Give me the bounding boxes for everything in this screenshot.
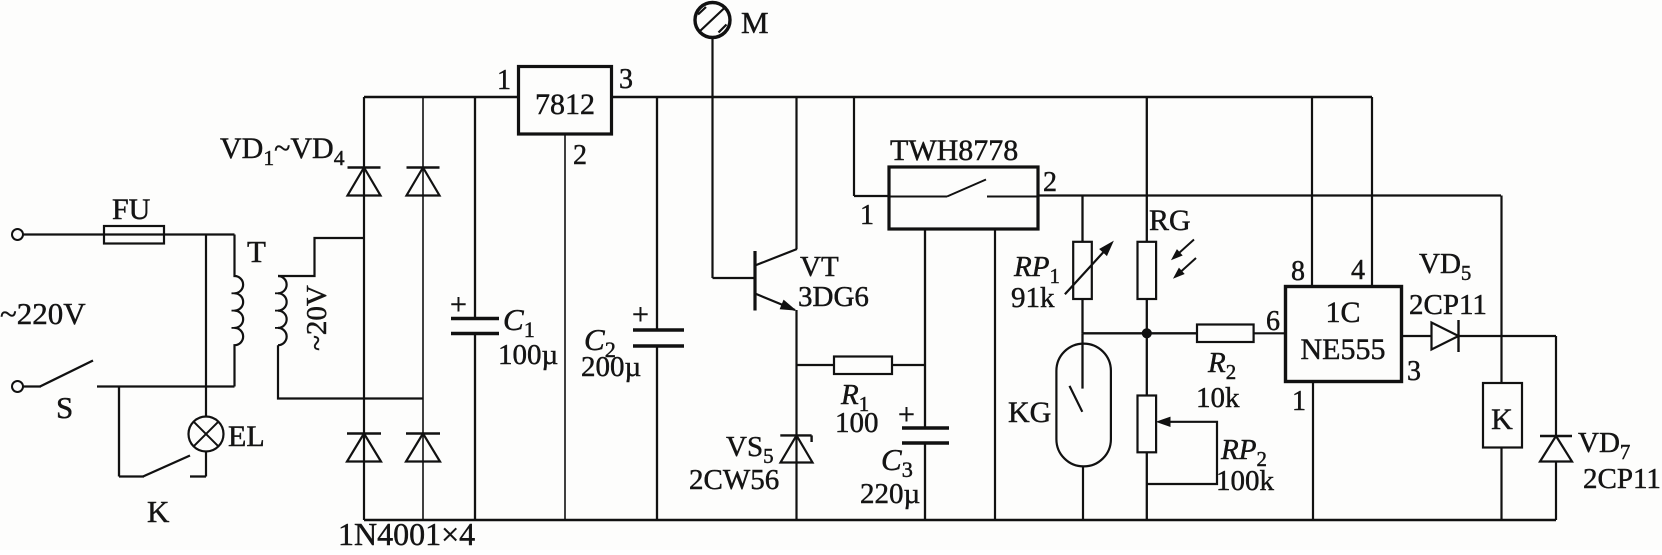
wire 7812 pin2 to ground <box>564 134 566 520</box>
svg-text:~220V: ~220V <box>0 296 86 331</box>
svg-text:100µ: 100µ <box>498 339 558 371</box>
wire fuse node down to lamp EL <box>205 235 207 417</box>
wire NE555 pin1 to ground <box>1312 382 1314 521</box>
wire to VT base <box>713 277 756 279</box>
svg-text:1: 1 <box>497 65 511 96</box>
regulator IC 7812 <box>519 67 612 135</box>
wire secondary bottom to bridge <box>278 345 423 398</box>
svg-text:8: 8 <box>1291 256 1305 287</box>
transistor VT base bar <box>753 251 756 311</box>
RP2 wiper arrow <box>1157 417 1170 426</box>
RP1 wiper arrow head <box>1100 242 1113 255</box>
wire AC top to fuse to transformer <box>23 233 235 235</box>
transistor VT emitter arrow <box>780 301 795 310</box>
wire to VD7 <box>1555 336 1557 436</box>
transistor VT emitter diagonal <box>755 294 795 311</box>
svg-text:C3: C3 <box>881 442 913 482</box>
svg-text:220µ: 220µ <box>860 478 920 510</box>
svg-text:91k: 91k <box>1011 282 1055 314</box>
diode VD5 <box>1432 323 1459 350</box>
switch K lamp branch <box>118 387 120 477</box>
wire TWH8778 pin1 <box>854 195 889 197</box>
wire NE555 pin3 to VD5 <box>1402 335 1432 337</box>
zener diode VS5 <box>780 434 811 436</box>
wire bridge left column <box>363 97 365 520</box>
IC NE555 <box>1286 287 1402 382</box>
terminal AC input bottom <box>12 381 23 392</box>
svg-text:1: 1 <box>1292 386 1306 417</box>
wire NE555 pin8 to rail <box>1311 97 1313 287</box>
svg-text:1: 1 <box>860 200 874 231</box>
svg-text:R2: R2 <box>1207 347 1236 384</box>
IC TWH8778 <box>889 167 1038 229</box>
potentiometer RP1 <box>1081 196 1083 242</box>
svg-text:2CW56: 2CW56 <box>689 464 779 496</box>
svg-text:7812: 7812 <box>535 88 595 121</box>
svg-text:T: T <box>247 234 266 269</box>
svg-text:KG: KG <box>1008 396 1051 429</box>
svg-text:VD5: VD5 <box>1419 248 1471 285</box>
capacitor C1 <box>474 97 476 319</box>
wire KG bottom to ground <box>1082 466 1084 520</box>
resistor R1 <box>797 364 835 366</box>
svg-text:K: K <box>147 494 170 529</box>
RP1 wiper arrow shaft <box>1065 248 1107 294</box>
diode VD3 bridge bottom-left <box>347 432 381 434</box>
wire R2 to NE555 pin6 <box>1254 332 1286 334</box>
svg-text:200µ: 200µ <box>581 351 641 383</box>
svg-text:FU: FU <box>112 193 151 226</box>
svg-text:VD1~VD4: VD1~VD4 <box>220 132 345 170</box>
transistor VT collector diagonal <box>755 249 797 266</box>
svg-text:2: 2 <box>573 140 587 171</box>
wire rail to TWH8778 pin1 <box>853 97 855 196</box>
svg-text:+: + <box>898 398 915 431</box>
wire secondary top to bridge <box>278 238 364 276</box>
svg-text:+: + <box>632 298 649 331</box>
transformer T secondary winding <box>278 276 287 345</box>
svg-text:2CP11: 2CP11 <box>1583 463 1661 495</box>
wire bridge right column <box>422 97 424 520</box>
relay coil K <box>1483 383 1522 448</box>
wire NE555 pin4 to rail <box>1371 97 1373 287</box>
capacitor C3 <box>924 229 926 428</box>
svg-text:M: M <box>741 5 769 40</box>
svg-text:6: 6 <box>1266 306 1280 337</box>
svg-text:NE555: NE555 <box>1301 333 1386 366</box>
wire motor M to transistor base <box>711 38 713 279</box>
svg-text:K: K <box>1491 403 1513 436</box>
wire VT emitter down through VS5 to ground <box>795 310 797 520</box>
wire TWH8778 ground pin to bottom rail <box>994 229 996 520</box>
wire lamp EL to switch K <box>205 452 207 477</box>
terminal AC input top <box>12 229 23 240</box>
transformer coil cusp ticks <box>232 292 238 294</box>
resistor R2 <box>1197 325 1254 343</box>
lamp EL <box>189 417 224 452</box>
transformer T primary winding <box>235 235 244 387</box>
svg-text:3: 3 <box>619 64 633 95</box>
svg-text:100: 100 <box>835 407 879 439</box>
svg-text:3DG6: 3DG6 <box>798 281 869 313</box>
svg-text:VS5: VS5 <box>726 431 774 468</box>
svg-text:RG: RG <box>1149 204 1191 237</box>
svg-text:2CP11: 2CP11 <box>1409 289 1487 321</box>
potentiometer RP2 <box>1146 333 1148 395</box>
wire ground bottom rail <box>364 519 1556 521</box>
diode VD7 <box>1540 435 1572 437</box>
diode VD2 bridge top-right <box>407 166 440 168</box>
svg-text:VT: VT <box>800 251 839 283</box>
diode VD1 bridge top-left <box>348 166 381 168</box>
svg-text:~20V: ~20V <box>301 285 333 351</box>
svg-text:10k: 10k <box>1196 382 1240 414</box>
TWH8778 internal switch <box>889 196 947 198</box>
svg-text:100k: 100k <box>1216 465 1275 497</box>
svg-text:TWH8778: TWH8778 <box>890 134 1018 167</box>
svg-text:S: S <box>56 390 73 425</box>
svg-text:C1: C1 <box>503 302 535 342</box>
wire +12V top rail left segment <box>364 96 519 98</box>
wire TWH8778 pin2 to relay node <box>1038 194 1501 196</box>
svg-text:4: 4 <box>1351 255 1365 286</box>
junction node dot <box>1142 329 1151 338</box>
wire node down to relay K <box>1500 196 1502 384</box>
wire relay K to ground <box>1500 448 1502 521</box>
fuse FU <box>104 226 164 244</box>
wire VD7 to ground <box>1555 462 1557 521</box>
wire node RP1/RG/R2 <box>1083 332 1198 334</box>
svg-text:EL: EL <box>228 420 265 453</box>
svg-text:1N4001×4: 1N4001×4 <box>338 516 475 550</box>
capacitor C2 <box>656 97 658 330</box>
svg-text:2: 2 <box>1043 167 1057 198</box>
RG light arrow 2 <box>1178 258 1196 274</box>
photoresistor RG <box>1146 97 1148 242</box>
svg-text:1C: 1C <box>1325 296 1360 329</box>
motor M <box>695 3 730 38</box>
svg-text:VD7: VD7 <box>1578 427 1630 464</box>
RG light arrow 1 <box>1176 240 1194 256</box>
diode VD4 bridge bottom-right <box>406 432 440 434</box>
mercury switch KG <box>1081 333 1083 388</box>
svg-text:3: 3 <box>1407 356 1421 387</box>
wire VD5 to relay node and VD7 <box>1459 335 1557 337</box>
svg-text:+: + <box>450 288 467 321</box>
wire +12V top rail right segment <box>612 96 1373 98</box>
KG contact blade <box>1070 386 1083 412</box>
switch S <box>23 385 41 387</box>
wire VT collector to +12V rail <box>795 97 797 249</box>
